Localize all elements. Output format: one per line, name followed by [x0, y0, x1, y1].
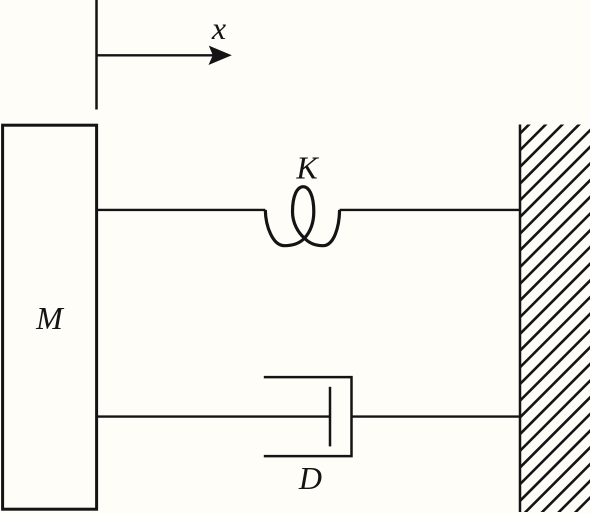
svg-text:K: K [295, 150, 319, 186]
svg-text:D: D [298, 460, 322, 496]
svg-text:x: x [211, 10, 226, 46]
svg-text:M: M [35, 300, 65, 336]
